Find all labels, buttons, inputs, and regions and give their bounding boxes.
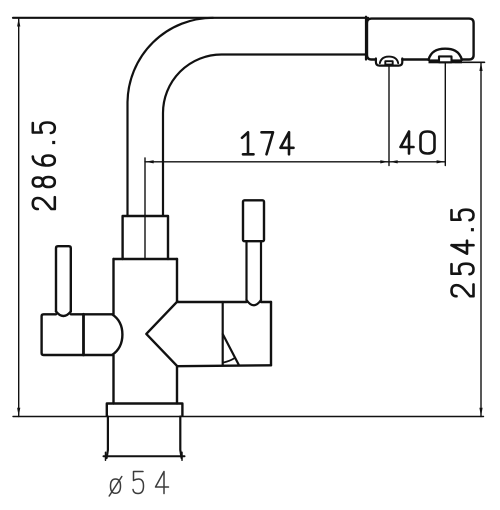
big aerator base bar [429,59,463,63]
right handle grip right edge [270,302,272,365]
right handle cone (triangle) [146,301,177,366]
arrow up at top of 254.5 [479,62,482,71]
spout top extension line (overall-height reference, also tube top edge) [13,17,368,19]
left handle divider [82,314,85,355]
text 254.5 (rotated) [452,210,474,297]
dimension: baseline (counter plane) [13,416,484,418]
small aerator outlet [376,59,402,66]
arrow down at bottom of 286.5 [17,408,20,417]
dimension: horizontal line 174 / 40 [145,161,445,163]
right lever cap [243,200,264,241]
dimension: right height line 254.5 [480,62,482,416]
right lever rod bottom arc [247,300,262,305]
body column left edge upper [112,259,114,314]
extension line at pipe centre (174 left) [144,158,146,259]
left handle body [42,314,123,355]
base flange [107,404,183,416]
text ø54 [109,472,168,497]
body column top edge [114,258,178,260]
arrow up at top of 286.5 [17,18,20,27]
spout outer curve (riser left edge to top) [128,18,214,216]
arrow down at bottom of 254.5 [479,408,482,417]
dimension line ø54 with end ticks [104,455,185,457]
arrow right at 445.3 [437,160,446,163]
tube end cap joint [365,17,367,60]
extension line from small aerator [388,66,390,166]
arrow left at 145 [145,160,154,163]
body column right edge lower [176,366,178,403]
left handle lever rod bottom arc [56,312,71,317]
extension line from big aerator [444,64,446,166]
right handle grip top edge [178,301,272,303]
right handle grip inner arc [223,358,235,363]
arrows at 389 [380,160,389,163]
base cylinder [107,417,182,459]
text 40 [401,132,435,154]
text 286.5 (rotated) [33,123,55,210]
riser collar [123,216,168,259]
right handle grip inner diagonal [223,334,239,365]
big aerator slot [439,56,452,62]
right handle grip inner vertical [222,302,224,365]
spout head body [367,19,474,60]
text 174 [242,132,294,154]
big aerator outlet dome [429,49,462,60]
body column right edge upper [176,259,178,301]
dimension: overall height line 286.5 [18,18,20,417]
left handle lever rod [56,246,71,311]
extension line from aerator base to right [455,61,485,63]
right handle grip bottom edge [178,364,272,367]
right lever rod [247,241,262,300]
spout inner curve (riser right edge to tube bottom edge) [163,55,366,217]
body column left edge lower [112,355,114,404]
